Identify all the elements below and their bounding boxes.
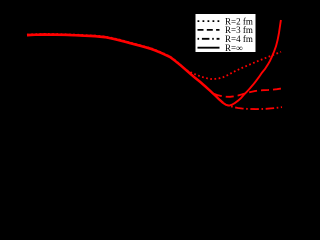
legend sample dotted <box>198 20 220 22</box>
curve R=2 fm (dotted, red) <box>27 34 281 79</box>
legend sample solid <box>198 47 220 49</box>
legend box <box>195 14 256 53</box>
svg-text:R=∞: R=∞ <box>225 43 243 53</box>
legend sample dashed <box>198 29 220 31</box>
curve R=infinity (solid, red) <box>27 20 281 106</box>
legend sample dash-dot <box>198 38 220 40</box>
curve R=3 fm (dashed, red) <box>27 34 283 97</box>
curve R=4 fm (dash-dot, red) <box>27 35 282 110</box>
curve bundle underlay (overlapping curves, left part) <box>27 34 223 102</box>
